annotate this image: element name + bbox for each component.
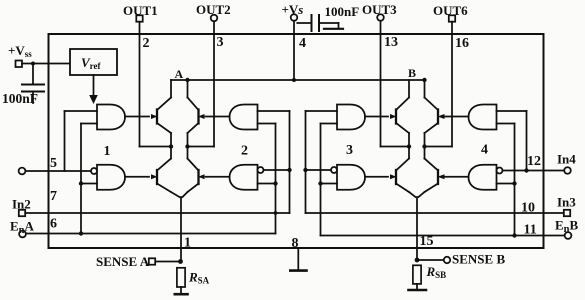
junction EnA/U1B input bbox=[79, 181, 83, 185]
AND gate U1B (block 1 lower, inverting input) bbox=[97, 165, 125, 190]
wire EnB to U4A input bbox=[497, 123, 515, 125]
terminal +Vss (logic supply) bbox=[8, 43, 32, 67]
AND gate U1A (block 1 upper) bbox=[97, 105, 125, 130]
wire In2 to U2A input bbox=[258, 110, 290, 112]
AND gate U2B (block 2 lower, inverting input) bbox=[230, 165, 258, 190]
transistor Q8 (bridge B right sink) bbox=[425, 159, 469, 193]
terminal EnB (pin 11) bbox=[555, 218, 579, 239]
capacitor C2 100nF (on Vs) bbox=[297, 4, 359, 31]
terminal In3 (pin 10) bbox=[557, 195, 576, 217]
node A bbox=[175, 67, 190, 82]
svg-text:A: A bbox=[175, 67, 184, 81]
wire tap to OUT2 column bbox=[188, 146, 215, 148]
svg-text:OUT3: OUT3 bbox=[362, 2, 397, 17]
node B bbox=[408, 66, 427, 82]
wire EnB riser to block 4 bbox=[514, 124, 516, 236]
wire EnA to U2A input bbox=[258, 123, 276, 125]
bridge A left column wire bbox=[171, 80, 180, 197]
svg-text:1: 1 bbox=[104, 144, 111, 159]
svg-text:13: 13 bbox=[384, 35, 398, 50]
terminal In2 (pin 7) bbox=[12, 197, 31, 217]
wire In4 riser bbox=[526, 111, 528, 171]
wire In3 to U3A input bbox=[306, 110, 338, 112]
bridge B right column wire bbox=[419, 80, 425, 197]
wire sense A (pin 1) bbox=[180, 197, 182, 262]
svg-text:15: 15 bbox=[420, 234, 434, 249]
svg-text:In2: In2 bbox=[12, 197, 31, 212]
terminal OUT1 bbox=[123, 3, 158, 22]
junction sense A bbox=[178, 259, 183, 264]
wire EnA to U2B input bbox=[258, 183, 276, 185]
transistor Q6 (bridge B left sink) bbox=[365, 159, 409, 193]
junction EnA/gate1 riser bbox=[79, 231, 83, 235]
wire EnB to U3B input bbox=[321, 183, 338, 185]
OUT2 tap junction bbox=[185, 144, 189, 148]
inverter bubble U4B input bbox=[497, 168, 503, 174]
transistor Q2 (bridge A left sink) bbox=[125, 159, 171, 193]
svg-text:6: 6 bbox=[50, 217, 57, 232]
inverter bubble U2B input bbox=[258, 167, 264, 173]
wire +Vss to Vref box bbox=[22, 63, 70, 65]
AND gate U3B (block 3 lower, inverting input) bbox=[337, 165, 365, 190]
svg-text:11: 11 bbox=[524, 223, 537, 238]
wire In2 to U2B bubble bbox=[264, 169, 290, 171]
terminal OUT2 bbox=[196, 2, 231, 21]
wire In3 to U3B bubble bbox=[306, 169, 332, 171]
wire EnA to U1B input bbox=[81, 183, 97, 185]
AND gate U4A (block 4 upper) bbox=[469, 105, 497, 130]
bridge B left column wire bbox=[409, 80, 416, 197]
svg-text:+Vs: +Vs bbox=[282, 2, 304, 17]
capacitor C1 100nF (on Vss) bbox=[2, 64, 44, 107]
wire In3 riser bbox=[305, 111, 307, 213]
svg-text:In3: In3 bbox=[557, 195, 576, 210]
OUT6 tap junction bbox=[422, 144, 426, 148]
svg-text:100nF: 100nF bbox=[325, 4, 360, 19]
junction sense B bbox=[415, 258, 420, 263]
svg-text:16: 16 bbox=[455, 36, 469, 51]
svg-text:2: 2 bbox=[241, 144, 248, 159]
svg-text:8: 8 bbox=[292, 236, 299, 251]
terminal OUT3 bbox=[362, 2, 397, 21]
wire EnA riser to block 1 bbox=[80, 124, 82, 234]
svg-text:10: 10 bbox=[521, 201, 535, 216]
AND gate U4B (block 4 lower, inverting input) bbox=[469, 165, 497, 190]
wire In4 bus bbox=[503, 170, 565, 172]
resistor RSB bbox=[413, 264, 446, 284]
junction EnB/gate4 riser bbox=[512, 233, 516, 237]
junction EnA/U2B input bbox=[273, 181, 277, 185]
svg-text:12: 12 bbox=[527, 154, 541, 169]
inverter bubble U1B input bbox=[91, 168, 97, 174]
Vref bias arrow to gate 1 bbox=[89, 75, 98, 104]
transistor Q3 (bridge A right source) bbox=[188, 98, 230, 134]
OUT3 tap junction bbox=[407, 144, 411, 148]
junction In4/riser bbox=[524, 168, 528, 172]
svg-text:OUT2: OUT2 bbox=[196, 2, 231, 17]
svg-text:RSA: RSA bbox=[188, 270, 210, 286]
svg-text:4: 4 bbox=[299, 36, 306, 51]
wire EnB to U3A input bbox=[321, 123, 338, 125]
wire EnA bus bbox=[26, 233, 276, 235]
wire EnB to U4B input bbox=[497, 183, 515, 185]
wire In1 to U1A input bbox=[65, 110, 98, 112]
svg-text:100nF: 100nF bbox=[2, 91, 38, 106]
svg-text:+Vss: +Vss bbox=[8, 43, 32, 59]
transistor Q5 (bridge B left source) bbox=[365, 98, 409, 134]
terminal SENSE A bbox=[96, 254, 178, 269]
voltage reference Vref bbox=[70, 49, 117, 75]
transistor Q1 (bridge A left source) bbox=[125, 98, 171, 134]
junction pin4/rail bbox=[292, 78, 296, 82]
terminal In4 (pin 12) bbox=[557, 152, 576, 174]
node junction +Vss/capacitor bbox=[31, 62, 35, 66]
ground (sense A) bbox=[175, 287, 188, 294]
inverter bubble U3B input bbox=[331, 167, 337, 173]
wire EnB bus bbox=[321, 235, 565, 237]
chip outline bbox=[49, 34, 544, 248]
junction EnB/U4B input bbox=[512, 181, 516, 185]
wire tap to OUT3 column bbox=[381, 146, 410, 148]
wire EnA riser to block 2 bbox=[275, 124, 277, 234]
svg-text:SENSE A: SENSE A bbox=[96, 254, 150, 269]
terminal SENSE B bbox=[420, 252, 506, 267]
svg-text:1: 1 bbox=[184, 236, 191, 251]
resistor RSA bbox=[177, 268, 210, 287]
wire In2 riser bbox=[289, 111, 291, 213]
wire tap to OUT6 column bbox=[425, 146, 453, 148]
svg-text:5: 5 bbox=[50, 156, 57, 171]
wire tap to OUT1 column bbox=[140, 146, 172, 148]
svg-text:B: B bbox=[408, 66, 416, 80]
Vs supply rail node A to node B bbox=[171, 79, 425, 81]
transistor Q4 (bridge A right sink) bbox=[188, 159, 230, 193]
svg-text:2: 2 bbox=[143, 36, 150, 51]
wire OUT6 pin 16 column bbox=[451, 22, 453, 147]
bridge A right column wire bbox=[183, 80, 188, 197]
wire OUT1 pin 2 column bbox=[139, 22, 141, 147]
junction In2/U2B bubble bbox=[287, 168, 291, 172]
ground (pin 8) bbox=[290, 236, 306, 271]
wire sense B (pin 15) bbox=[416, 197, 418, 260]
junction blob EnA riser crossing In2 bbox=[274, 211, 278, 215]
AND gate U3A (block 3 upper) bbox=[337, 105, 365, 130]
junction In3/U3B bubble bbox=[303, 168, 307, 172]
terminal EnA (pin 6) bbox=[10, 219, 35, 238]
junction EnB/U3B input bbox=[318, 181, 322, 185]
wire EnB riser to block 3 bbox=[320, 124, 322, 236]
wire In3 bus bbox=[306, 212, 564, 214]
wire OUT3 pin 13 column bbox=[380, 21, 382, 147]
wire +Vs pin 4 column bbox=[293, 21, 295, 80]
wire In2 bus bbox=[25, 212, 289, 214]
terminal OUT6 bbox=[433, 3, 468, 22]
wire In1 to gates bbox=[25, 170, 91, 172]
svg-text:3: 3 bbox=[217, 35, 224, 50]
svg-text:7: 7 bbox=[50, 189, 57, 204]
wire OUT2 pin 3 column bbox=[213, 21, 215, 146]
svg-text:RSB: RSB bbox=[426, 264, 447, 280]
svg-text:3: 3 bbox=[346, 143, 353, 158]
wire In4 to U4A input bbox=[497, 110, 527, 112]
transistor Q7 (bridge B right source) bbox=[425, 98, 469, 134]
svg-text:SENSE B: SENSE B bbox=[452, 252, 505, 267]
svg-text:EnB: EnB bbox=[555, 218, 579, 236]
terminal In1 (pin 5, unlabeled) bbox=[19, 168, 26, 175]
svg-text:OUT6: OUT6 bbox=[433, 3, 468, 18]
terminal +Vs (motor supply) bbox=[282, 2, 304, 21]
OUT1 tap junction bbox=[169, 144, 173, 148]
wire EnA to U1A input bbox=[81, 123, 97, 125]
AND gate U2A (block 2 upper) bbox=[230, 105, 258, 130]
svg-text:4: 4 bbox=[481, 143, 488, 158]
svg-text:OUT1: OUT1 bbox=[123, 3, 158, 18]
ground (sense B) bbox=[409, 284, 427, 290]
wire In1 riser bbox=[64, 111, 66, 171]
svg-text:In4: In4 bbox=[557, 152, 576, 167]
